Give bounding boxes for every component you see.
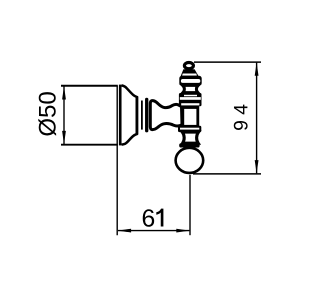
ball collar ring	[179, 143, 199, 147]
finial cone stack	[179, 69, 200, 79]
arrowhead 94 up	[255, 62, 259, 76]
finial cone white groove	[182, 74, 197, 76]
extension line below ball (right of 61 dim)	[189, 175, 191, 235]
arrowhead Ø50 down	[62, 131, 66, 145]
wall plate cone (escutcheon side profile)	[122, 85, 137, 144]
collar groove 3	[181, 103, 199, 105]
arrowhead Ø50 up	[62, 86, 66, 100]
cone right edge bar	[135, 97, 138, 134]
extension line top (94) from finial	[194, 61, 261, 63]
hub thick ring	[145, 99, 148, 130]
neck below disc (concave)	[183, 85, 199, 92]
wall plate rear rim (thick bar at wall)	[119, 85, 122, 146]
lower collar groove	[180, 128, 199, 130]
dimension line Ø50	[63, 86, 65, 144]
ribbed collar (upper rings)	[179, 93, 202, 106]
hub washer thin ring	[141, 101, 143, 130]
collar groove 1	[184, 95, 197, 97]
lower ring collar	[178, 126, 201, 132]
extension line bottom of plate (Ø50)	[61, 144, 118, 146]
arrowhead 61 left	[118, 229, 132, 233]
label Ø50 (rotated)	[38, 92, 56, 136]
lower waist (concave)	[182, 132, 198, 143]
arrowhead 94 down	[255, 160, 259, 174]
arm (turned bracket, bone profile)	[150, 101, 182, 130]
label 61	[143, 209, 164, 227]
collar groove 2	[180, 97, 201, 100]
dimension line 94	[256, 63, 258, 174]
arrowhead 61 right	[176, 229, 190, 233]
label 94 (rotated)	[234, 105, 248, 130]
finial disc (torus)	[179, 76, 201, 85]
finial knob (top ball)	[184, 63, 193, 69]
collar taper to stem	[182, 106, 199, 109]
stem cylinder	[183, 108, 198, 127]
dimension line 61	[118, 230, 189, 232]
extension line bottom (94) from ball	[193, 173, 261, 175]
extension line wall plane (vertical, left of 61 dim)	[116, 86, 118, 236]
ball (hook end)	[176, 148, 204, 173]
extension line top of plate (Ø50)	[61, 85, 118, 87]
finial disc white face	[181, 79, 200, 83]
